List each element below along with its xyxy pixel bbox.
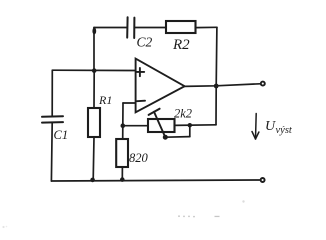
wire corner up to output node: [215, 86, 217, 125]
node bottom rail at R1: [90, 178, 95, 183]
op-amp plus sign: [137, 71, 145, 73]
svg-text:U: U: [265, 119, 276, 134]
wire 820 bottom lead: [121, 167, 123, 180]
node junction at R1 top: [92, 68, 97, 73]
wire wiper tie left: [165, 136, 190, 139]
capacitor C1: [42, 116, 63, 122]
node wiper bottom: [163, 135, 168, 140]
resistor R1: [88, 108, 100, 137]
wire C2 to R2: [135, 27, 166, 29]
wire op-amp output: [185, 84, 260, 87]
capacitor C2: [127, 17, 134, 38]
output terminal top: [261, 82, 265, 86]
svg-text:C2: C2: [137, 35, 153, 50]
svg-text:R2: R2: [172, 37, 190, 53]
output terminal bottom: [261, 178, 265, 182]
node output junction: [214, 84, 219, 89]
potentiometer wiper arm: [154, 112, 165, 137]
svg-text:R1: R1: [98, 93, 112, 107]
node bottom rail at 820: [120, 177, 125, 182]
wire pot right to corner: [175, 124, 217, 127]
node pot wiper tie: [188, 123, 192, 127]
wire left vertical down to C1: [51, 70, 53, 116]
potentiometer 2k2 body: [148, 119, 175, 132]
arrow U vyst: [255, 114, 258, 139]
wire R1 bottom lead: [92, 137, 95, 180]
wire top rail left segment: [94, 27, 127, 29]
op-amp U1: [136, 59, 185, 113]
svg-text:C1: C1: [54, 128, 69, 142]
wire node to pot left: [123, 125, 148, 127]
resistor 820: [116, 139, 128, 167]
wire C1 down to bottom rail: [50, 123, 53, 181]
wire top node down to + line: [93, 28, 95, 71]
node pot branch junction: [121, 123, 126, 128]
op-amp minus sign: [137, 100, 145, 103]
wire - input to left corner: [123, 102, 136, 104]
wire R2 to right corner: [196, 26, 217, 28]
wire R1 top lead: [93, 71, 95, 108]
potentiometer wiper crossbar: [149, 109, 160, 115]
wire right vertical down to output node: [215, 27, 218, 86]
resistor R2: [166, 21, 196, 33]
svg-text:výst: výst: [276, 125, 293, 136]
svg-text:820: 820: [129, 151, 149, 165]
node top-left junction: [92, 28, 96, 35]
wire wiper tie down: [189, 125, 191, 136]
wire + input horizontal: [52, 69, 135, 71]
wire inverting branch vertical: [122, 103, 124, 139]
wire bottom rail: [51, 180, 259, 181]
svg-text:2k2: 2k2: [174, 107, 192, 121]
